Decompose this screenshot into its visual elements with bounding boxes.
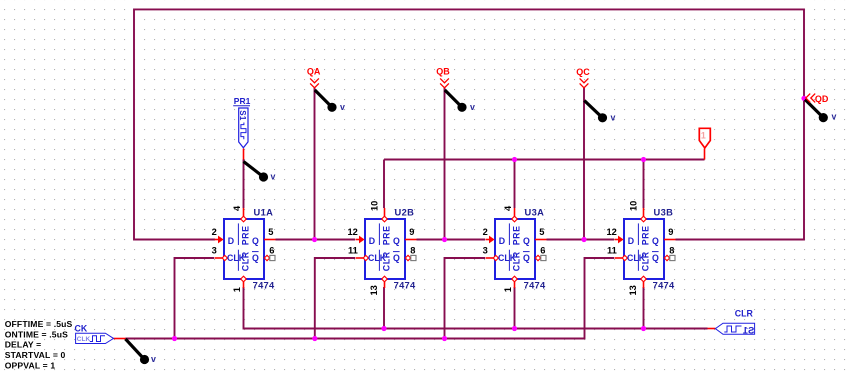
svg-text:QC: QC (576, 67, 590, 77)
svg-text:OPPVAL = 1: OPPVAL = 1 (5, 360, 56, 370)
svg-text:S1: S1 (742, 325, 754, 336)
svg-text:11: 11 (607, 246, 617, 256)
svg-text:4: 4 (232, 205, 242, 211)
svg-text:9: 9 (668, 227, 673, 237)
svg-text:2: 2 (212, 227, 217, 237)
svg-text:12: 12 (347, 227, 357, 237)
svg-text:ONTIME = .5uS: ONTIME = .5uS (5, 329, 68, 339)
svg-text:3: 3 (212, 246, 217, 256)
svg-text:OFFTIME = .5uS: OFFTIME = .5uS (5, 319, 73, 329)
svg-text:U2B: U2B (395, 207, 415, 217)
svg-text:v: v (470, 102, 475, 112)
svg-text:7474: 7474 (524, 280, 546, 290)
svg-text:QA: QA (307, 66, 321, 76)
svg-text:13: 13 (369, 285, 379, 295)
svg-text:U3A: U3A (525, 207, 545, 217)
svg-text:STARTVAL = 0: STARTVAL = 0 (5, 350, 66, 360)
svg-text:S1: S1 (238, 110, 247, 121)
svg-text:7474: 7474 (253, 280, 275, 290)
svg-text:QD: QD (815, 94, 829, 104)
svg-text:3: 3 (483, 246, 488, 256)
svg-text:11: 11 (348, 246, 358, 256)
svg-text:6: 6 (269, 246, 274, 256)
svg-text:QB: QB (436, 66, 450, 76)
svg-text:CLR: CLR (735, 309, 754, 319)
svg-text:2: 2 (483, 227, 488, 237)
svg-text:CK: CK (75, 323, 88, 333)
svg-text:5: 5 (268, 227, 273, 237)
svg-text:CLK: CLK (77, 336, 91, 343)
svg-text:6: 6 (540, 246, 545, 256)
svg-text:1: 1 (503, 287, 513, 292)
svg-text:12: 12 (606, 227, 616, 237)
svg-text:v: v (340, 102, 345, 112)
svg-text:DELAY =: DELAY = (5, 340, 42, 350)
svg-text:U3B: U3B (654, 207, 674, 217)
svg-text:8: 8 (410, 246, 415, 256)
svg-text:10: 10 (369, 201, 379, 211)
svg-text:v: v (832, 112, 837, 122)
svg-text:4: 4 (503, 205, 513, 211)
svg-text:7474: 7474 (394, 280, 416, 290)
svg-text:1: 1 (232, 287, 242, 292)
svg-text:v: v (271, 172, 276, 182)
svg-text:9: 9 (409, 227, 414, 237)
svg-text:U1A: U1A (254, 207, 274, 217)
svg-text:v: v (611, 112, 616, 122)
svg-text:1: 1 (701, 130, 706, 140)
svg-text:7474: 7474 (653, 280, 675, 290)
svg-text:10: 10 (628, 201, 638, 211)
svg-text:8: 8 (669, 246, 674, 256)
svg-text:v: v (151, 354, 156, 364)
svg-text:PR1: PR1 (234, 96, 251, 106)
svg-text:5: 5 (539, 227, 544, 237)
svg-text:13: 13 (628, 285, 638, 295)
